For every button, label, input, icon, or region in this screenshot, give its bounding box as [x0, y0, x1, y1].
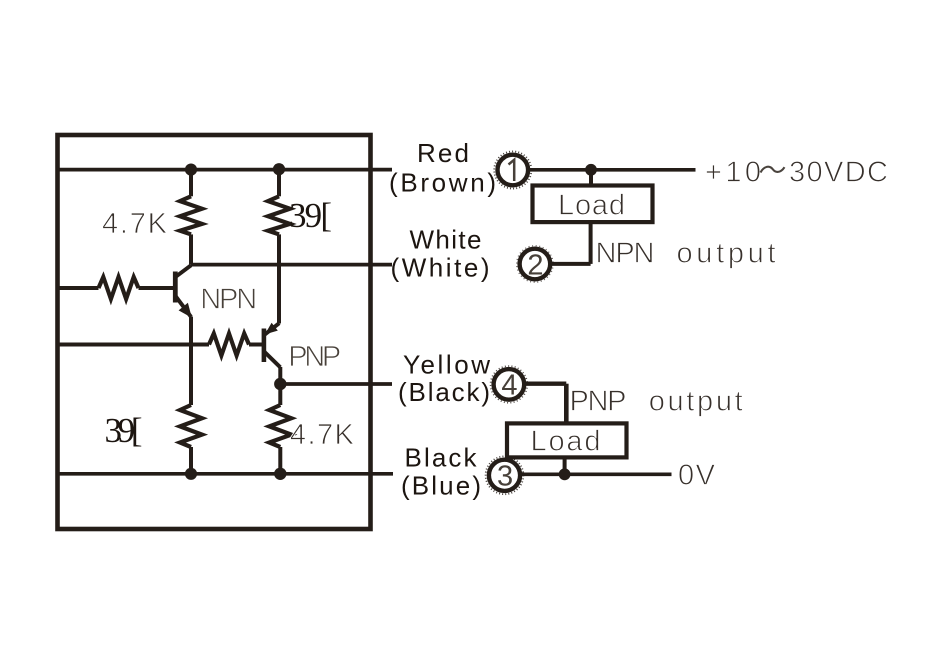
svg-text:39[: 39[: [289, 196, 332, 235]
load box 1: [533, 186, 653, 223]
wire Q2 collector down: [278, 367, 282, 384]
svg-text:Load: Load: [531, 426, 601, 458]
resistor R3 39ohm: [180, 405, 202, 447]
wire load1 bottom lead: [589, 222, 593, 264]
svg-text:PNP: PNP: [288, 341, 341, 373]
wire pin2 to load1: [552, 262, 591, 266]
resistor R5 (NPN base): [99, 277, 139, 299]
wire base rail 2 left: [58, 343, 210, 347]
Q1 collector diagonal: [176, 265, 191, 276]
pin circle 2: [517, 246, 553, 282]
wire pin4 to PNP output: [524, 382, 566, 386]
wire Q1 emitter down: [189, 317, 193, 406]
wire base rail 2 right: [249, 343, 262, 347]
wire 0V right: [520, 472, 671, 476]
svg-text:PNPoutput: PNPoutput: [570, 385, 743, 417]
transistor Q1 NPN base bar: [173, 272, 178, 303]
wire base rail 1 right: [139, 286, 174, 290]
resistor R6 (PNP base): [209, 334, 249, 356]
svg-text:4: 4: [501, 370, 517, 402]
svg-text:Yellow: Yellow: [403, 349, 490, 379]
wire down to load2: [564, 384, 569, 424]
svg-text:White: White: [410, 225, 482, 255]
wire load2 bottom lead: [563, 457, 567, 474]
svg-text:NPNoutput: NPNoutput: [596, 237, 776, 269]
svg-text:NPN: NPN: [200, 284, 257, 316]
svg-text:2: 2: [527, 249, 543, 281]
wire base rail 1 left: [58, 286, 99, 290]
wire R1 top lead: [189, 170, 193, 197]
wire R4 bottom lead: [278, 447, 282, 474]
Q2 collector diagonal: [264, 352, 280, 368]
wire R1 bottom lead: [189, 234, 193, 264]
Q2 emitter arrowhead: [265, 323, 278, 335]
wire R2 bottom / Q2 emitter up: [277, 234, 281, 323]
svg-text:(Black): (Black): [398, 377, 490, 407]
svg-text:+10: +10: [705, 156, 761, 188]
svg-text:Load: Load: [558, 190, 625, 222]
wire R4 top lead: [278, 384, 282, 405]
wire pin1 to +V: [528, 168, 695, 172]
wire Yellow rail: [280, 382, 392, 386]
transistor Q2 PNP base bar: [262, 329, 267, 363]
wire load1 top lead: [589, 170, 593, 186]
load box 2: [507, 423, 627, 457]
svg-text:4.7K: 4.7K: [290, 419, 355, 451]
svg-text:3: 3: [497, 461, 513, 493]
pin circle 4: [491, 366, 528, 403]
node R3 / 0V rail: [185, 468, 197, 480]
node rail1/R1 junction: [185, 164, 197, 176]
resistor R1 4.7K: [180, 196, 202, 234]
resistor R2 39ohm: [268, 196, 290, 234]
svg-text:0V: 0V: [678, 459, 716, 491]
wire R3 bottom lead: [189, 447, 193, 474]
pin circle 1: [494, 151, 531, 188]
wire White rail (collector node to stub): [191, 263, 392, 267]
node 0V junction: [559, 468, 571, 480]
wire +V rail (Red): [58, 168, 393, 172]
Q1 emitter diagonal: [176, 296, 191, 316]
node rail1/R2 junction: [273, 163, 285, 175]
svg-text:Black: Black: [405, 442, 478, 472]
wire R2 top lead: [277, 169, 281, 196]
Q2 emitter diagonal: [264, 323, 279, 335]
svg-text:(Brown): (Brown): [389, 168, 496, 198]
resistor R4 4.7K: [269, 405, 291, 447]
svg-text:30VDC: 30VDC: [789, 156, 888, 188]
sensor outline box: [58, 135, 371, 529]
node yellow junction: [274, 378, 286, 390]
node load1 top: [585, 164, 597, 176]
svg-text:Red: Red: [417, 138, 469, 168]
svg-text:4.7K: 4.7K: [102, 208, 168, 240]
pin circle 3: [486, 456, 524, 494]
Q1 emitter arrowhead: [179, 303, 192, 318]
node R4 / 0V rail: [274, 468, 286, 480]
svg-text:39[: 39[: [105, 411, 143, 450]
svg-text:(White): (White): [391, 252, 490, 282]
wire 0V rail (Black): [58, 472, 394, 476]
svg-text:(Blue): (Blue): [401, 471, 481, 501]
